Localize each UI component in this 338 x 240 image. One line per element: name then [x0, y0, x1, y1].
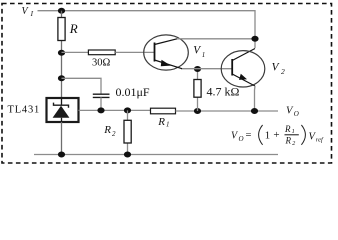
- wire top rail: [38, 11, 256, 48]
- svg-text:R: R: [285, 135, 292, 145]
- svg-text:2: 2: [292, 140, 296, 147]
- op-amp U1 TL431 box: [47, 98, 79, 122]
- wire to 30ohm: [62, 51, 89, 53]
- transistor Q2 V2: [232, 49, 255, 61]
- TL431 internal zener: [54, 103, 69, 108]
- node junction collector rail: [251, 36, 258, 42]
- svg-text:R: R: [103, 124, 111, 136]
- svg-text:TL431: TL431: [8, 104, 41, 115]
- svg-text:V: V: [193, 45, 201, 57]
- svg-text:O: O: [239, 135, 244, 143]
- wire V2 emitter to output: [254, 86, 257, 111]
- svg-text:1: 1: [202, 51, 206, 59]
- wire output rail: [176, 110, 279, 112]
- resistor R1: [151, 108, 176, 114]
- wire 30ohm to V1 base: [115, 51, 154, 53]
- svg-text:+: +: [273, 129, 279, 141]
- wire R to TL431 vertical: [61, 11, 63, 99]
- svg-text:1: 1: [292, 128, 295, 135]
- wire TL431 ref to R1: [79, 109, 151, 111]
- svg-text:1: 1: [166, 121, 170, 129]
- node junction R bottom / 30ohm branch: [58, 50, 65, 56]
- node junction cap bottom: [97, 107, 104, 113]
- svg-text:R: R: [157, 116, 165, 128]
- svg-text:2: 2: [281, 67, 285, 76]
- svg-text:R: R: [284, 124, 291, 134]
- node junction V1 emitter / V2 base / 4.7k: [194, 66, 201, 72]
- transistor Q1 V1: [144, 35, 189, 70]
- svg-text:V: V: [286, 105, 294, 116]
- resistor 4.7k: [197, 69, 199, 111]
- wire TL431 anode to ground rail: [61, 122, 63, 155]
- svg-text:=: =: [246, 130, 252, 141]
- border frame: [2, 4, 332, 164]
- node junction R2 ground: [124, 152, 131, 158]
- svg-text:R: R: [69, 21, 78, 36]
- formula Vo equation: [231, 124, 324, 147]
- svg-text:I: I: [30, 10, 34, 18]
- node junction R2 top: [124, 107, 131, 113]
- resistor 30ohm: [88, 50, 115, 55]
- svg-text:30Ω: 30Ω: [92, 58, 111, 69]
- svg-text:2: 2: [112, 130, 116, 138]
- capacitor C 0.01uF: [93, 93, 110, 95]
- svg-text:4.7 kΩ: 4.7 kΩ: [207, 85, 240, 99]
- svg-text:O: O: [294, 110, 299, 118]
- wire ground rail: [34, 154, 278, 156]
- svg-text:ref: ref: [316, 136, 324, 143]
- node junction 4.7k bottom: [194, 108, 201, 114]
- svg-text:V: V: [272, 62, 280, 74]
- resistor R2: [127, 110, 129, 154]
- wire V1 collector to rail: [177, 38, 255, 40]
- node junction cap branch: [58, 75, 65, 81]
- wire cap to ref rail: [100, 97, 102, 110]
- wire V1 emitter to V2 base: [181, 68, 232, 70]
- resistor R: [58, 18, 65, 41]
- wire cap branch: [62, 78, 102, 93]
- svg-text:0.01μF: 0.01μF: [116, 85, 150, 99]
- node junction V2 emitter output: [251, 108, 258, 114]
- svg-text:1: 1: [265, 129, 270, 141]
- node junction TL431 ground: [58, 152, 65, 158]
- node junction top of R: [58, 8, 65, 14]
- svg-text:V: V: [22, 6, 30, 17]
